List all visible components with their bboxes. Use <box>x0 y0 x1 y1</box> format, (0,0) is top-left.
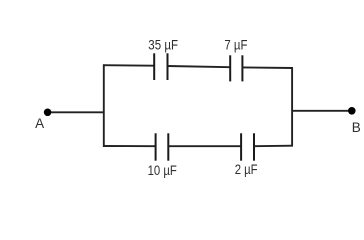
svg-text:10 µF: 10 µF <box>148 163 177 178</box>
svg-text:2 µF: 2 µF <box>235 162 258 177</box>
wire A lead <box>48 111 104 113</box>
node A <box>44 109 52 117</box>
wire left rail <box>103 64 105 147</box>
wire top left segment <box>103 64 154 67</box>
wire bottom middle segment <box>168 145 241 147</box>
wire top right segment <box>242 66 293 69</box>
capacitor C4 2 µF <box>241 133 254 160</box>
capacitor C2 7 µF <box>230 55 242 81</box>
wire bottom left segment <box>103 145 156 147</box>
svg-text:7 µF: 7 µF <box>224 37 247 52</box>
svg-text:35 µF: 35 µF <box>148 37 178 52</box>
wire bottom right segment <box>254 145 293 148</box>
wire top middle segment <box>168 66 231 67</box>
capacitor C1 35 µF <box>154 53 167 80</box>
svg-text:A: A <box>35 116 44 131</box>
capacitor C3 10 µF <box>156 133 169 160</box>
node B <box>348 107 356 115</box>
svg-text:B: B <box>352 120 361 135</box>
wire B lead <box>292 110 352 112</box>
wire right rail <box>291 67 293 146</box>
